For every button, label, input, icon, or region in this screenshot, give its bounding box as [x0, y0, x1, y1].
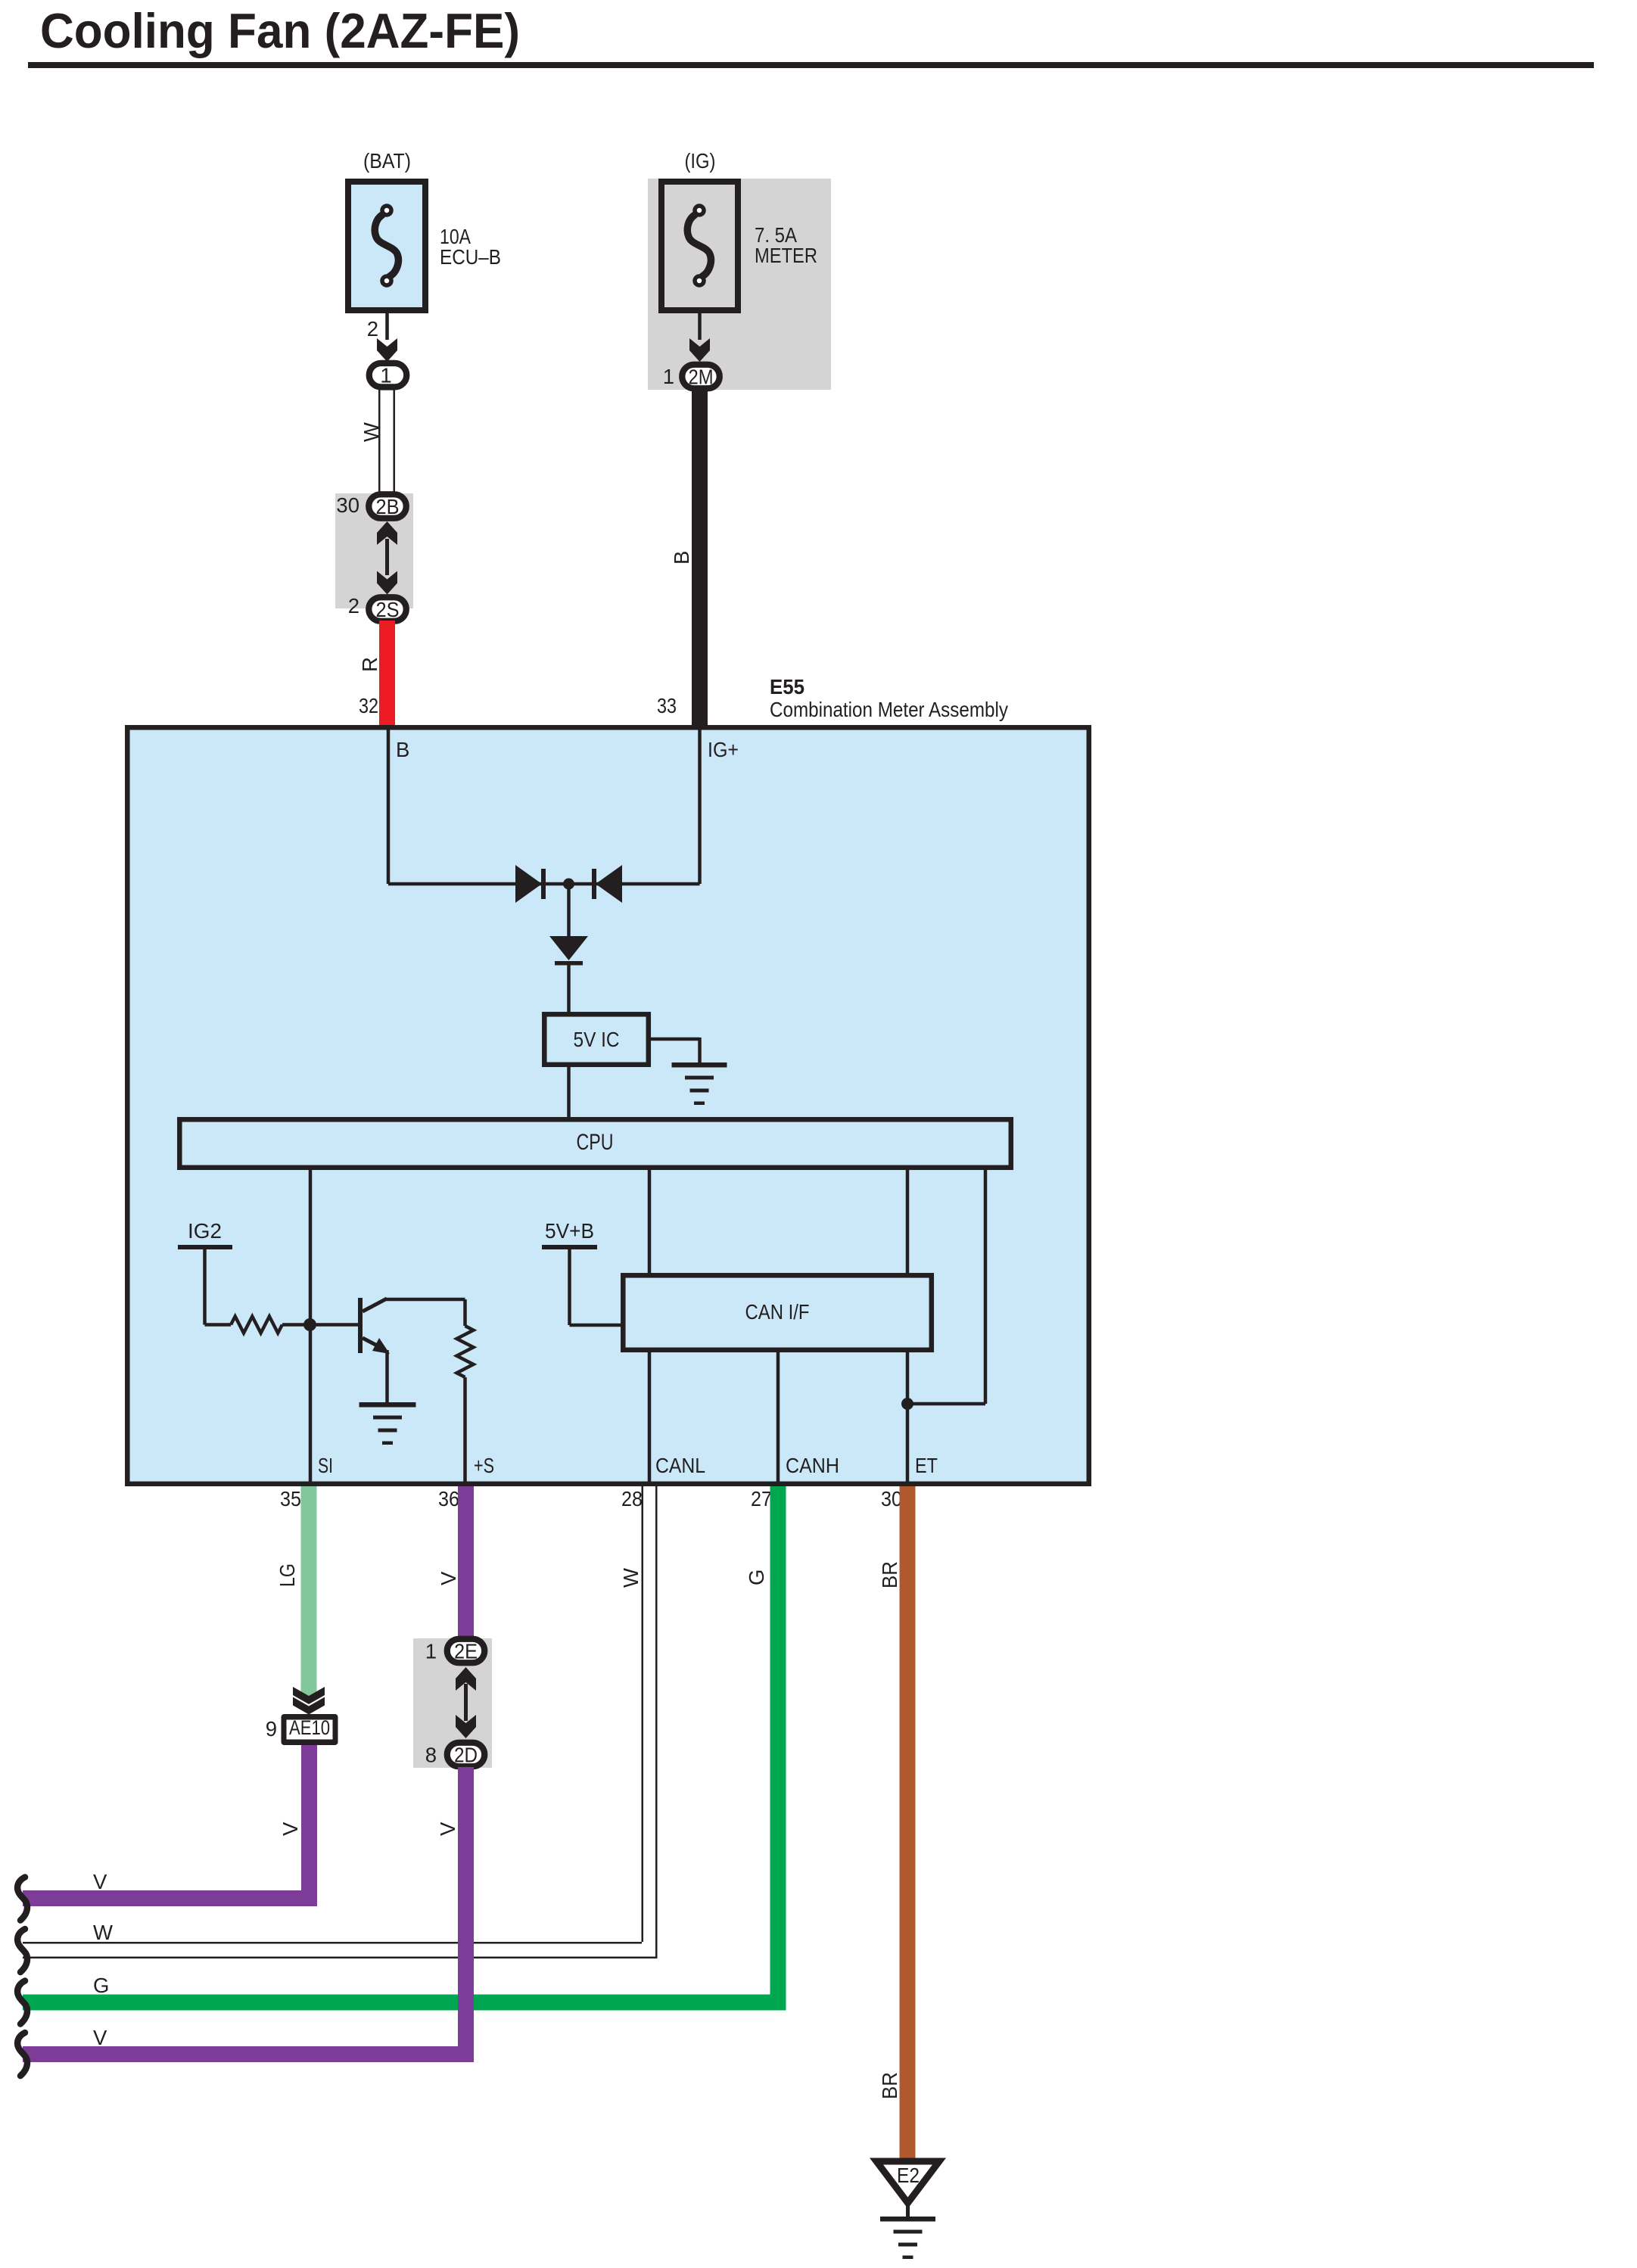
svg-text:CPU: CPU — [577, 1130, 614, 1155]
connector oval 2E — [447, 1639, 485, 1663]
inter-connector arrow down (2D) — [456, 1715, 476, 1738]
harness continuation brace 1 — [17, 1878, 27, 1921]
svg-text:1: 1 — [663, 365, 674, 388]
ground E2 stem — [906, 2203, 910, 2218]
node junction of D1/D2 — [563, 879, 574, 890]
ground G1 — [359, 1402, 416, 1408]
wire W pin 28 vertical (white wire) — [642, 1486, 644, 1942]
svg-text:+S: +S — [474, 1454, 494, 1477]
wire R2 to pin +S — [463, 1377, 467, 1485]
svg-text:CANL: CANL — [655, 1454, 705, 1477]
wire W horizontal run — [23, 1942, 642, 1944]
wire CAN I/F to pin ET — [906, 1351, 910, 1485]
inter-connector arrow up (2E) — [456, 1667, 476, 1691]
wire fuse ECU-B to connector 1 — [385, 313, 389, 340]
svg-text:V: V — [436, 1822, 459, 1836]
wire LG pin 35 (light green wire) — [301, 1486, 317, 1699]
arrow into connector 1 — [377, 338, 397, 362]
wire G horizontal run — [23, 1995, 786, 2011]
svg-text:CANH: CANH — [786, 1454, 839, 1477]
wire V 2D down (violet wire) — [458, 1767, 474, 2062]
svg-text:35: 35 — [280, 1487, 301, 1510]
wire G pin 27 vertical (green wire) — [770, 1486, 786, 2011]
junction block shade 2M — [648, 179, 831, 390]
svg-text:SI: SI — [318, 1454, 333, 1477]
wire BR pin 30 (brown wire) — [900, 1486, 916, 2159]
svg-text:36: 36 — [438, 1487, 459, 1510]
resistor R1 — [231, 1317, 282, 1333]
diode D2 — [596, 865, 622, 903]
wire pin IG+ to diode D2 — [698, 729, 702, 884]
splice arrow into AE10 — [293, 1687, 325, 1704]
svg-text:33: 33 — [657, 694, 677, 717]
wire CAN I/F to pin CANH — [776, 1351, 780, 1485]
ground G2 — [672, 1062, 727, 1068]
inter-connector link wire — [385, 539, 389, 575]
connector oval 2D — [447, 1743, 485, 1767]
wire CPU to CAN I/F (ET side) — [906, 1168, 910, 1274]
junction connector AE10 — [282, 1714, 338, 1745]
svg-text:2S: 2S — [376, 598, 400, 621]
svg-text:V: V — [93, 1870, 107, 1893]
svg-text:5V IC: 5V IC — [574, 1028, 620, 1051]
svg-text:1: 1 — [380, 364, 391, 387]
svg-text:LG: LG — [275, 1563, 299, 1587]
wire CPU to ET junction — [984, 1168, 988, 1404]
wire R1 to node SI — [282, 1323, 310, 1327]
svg-text:V: V — [437, 1571, 460, 1585]
svg-text:B: B — [670, 551, 693, 565]
wire V horizontal run 2 — [23, 2046, 474, 2062]
fuse 10A ECU-B body — [348, 182, 425, 310]
wire CAN I/F to pin CANL — [648, 1351, 652, 1485]
ground E2 bars — [880, 2217, 935, 2222]
wire W connector 1 to 2B (white wire) — [378, 387, 381, 493]
wire B 2M to pin 33 (black wire) — [692, 390, 708, 726]
wire Q1 emitter to ground G1 — [385, 1350, 389, 1405]
junction block shade 2E-2D — [413, 1638, 492, 1768]
wire R 2S to pin 32 (red wire) — [379, 621, 395, 726]
wire V horizontal run 1 — [23, 1890, 317, 1906]
inter-connector link wire (2E-2D) — [464, 1684, 468, 1721]
svg-text:V: V — [279, 1822, 302, 1836]
svg-text:5V+B: 5V+B — [545, 1219, 594, 1243]
svg-text:(BAT): (BAT) — [363, 149, 411, 173]
svg-text:8: 8 — [425, 1744, 437, 1767]
svg-text:W: W — [93, 1921, 113, 1944]
svg-text:BR: BR — [878, 2072, 901, 2099]
svg-text:2E: 2E — [454, 1640, 478, 1663]
wire fuse METER to connector 2M — [698, 313, 702, 340]
fuse 10A ECU-B element symbol — [375, 215, 398, 276]
fuse 7.5A METER body — [661, 182, 738, 310]
svg-text:E55: E55 — [770, 675, 804, 698]
wire ET junction horizontal — [907, 1402, 985, 1406]
svg-text:IG2: IG2 — [188, 1219, 222, 1243]
CAN I/F box — [623, 1275, 932, 1350]
connector oval 1 — [369, 363, 407, 387]
svg-text:2D: 2D — [454, 1744, 478, 1767]
svg-text:ET: ET — [915, 1454, 938, 1477]
svg-text:V: V — [93, 2026, 107, 2049]
wire Q1 collector to resistor R2 — [385, 1298, 465, 1302]
node ET junction dot — [901, 1398, 913, 1410]
regulator 5V IC box — [544, 1014, 649, 1065]
connector oval 2B — [369, 494, 406, 518]
svg-text:2B: 2B — [376, 495, 400, 518]
wire node to transistor Q1 base — [310, 1323, 359, 1327]
resistor R2 — [457, 1326, 474, 1377]
inter-connector arrow down — [377, 571, 397, 595]
wire V pin 36 vertical (violet wire) — [458, 1486, 474, 1640]
node SI junction dot — [303, 1318, 316, 1331]
wire 5V+B to CAN I/F — [570, 1324, 624, 1327]
connector oval 2S — [369, 597, 406, 621]
svg-text:AE10: AE10 — [289, 1716, 330, 1739]
svg-text:R: R — [358, 657, 381, 672]
svg-text:METER: METER — [755, 244, 817, 267]
transistor Q1 — [358, 1298, 363, 1353]
wire 5V IC to ground G2 — [649, 1038, 700, 1041]
fuse 7.5A METER element symbol — [687, 215, 711, 276]
svg-text:BR: BR — [878, 1561, 901, 1588]
wire junction to diode D3 — [567, 884, 571, 937]
svg-text:Cooling Fan (2AZ-FE): Cooling Fan (2AZ-FE) — [40, 3, 520, 58]
wire IG2 to resistor R1 — [205, 1323, 232, 1327]
svg-text:W: W — [359, 422, 383, 442]
ECU box E55 Combination Meter Assembly — [127, 727, 1089, 1484]
diode D3 — [549, 936, 588, 960]
svg-text:2: 2 — [348, 594, 359, 618]
svg-text:ECU–B: ECU–B — [440, 245, 501, 269]
wire CPU to pin SI — [309, 1168, 313, 1485]
connector oval 2M — [682, 365, 720, 389]
inter-connector arrow up — [377, 521, 397, 545]
svg-text:2M: 2M — [689, 366, 714, 389]
svg-text:Combination Meter Assembly: Combination Meter Assembly — [770, 698, 1008, 721]
wire 5V IC to CPU — [567, 1065, 571, 1118]
title underline rule — [28, 62, 1594, 68]
svg-text:(IG): (IG) — [685, 149, 716, 173]
wire diode bus horizontal — [388, 882, 700, 886]
svg-text:1: 1 — [425, 1640, 437, 1663]
svg-text:CAN I/F: CAN I/F — [745, 1300, 810, 1324]
diode D1 — [515, 865, 542, 903]
junction block shade 2B-2S — [335, 493, 413, 608]
wire D3 to 5V IC — [567, 965, 571, 1014]
svg-text:G: G — [93, 1974, 109, 1997]
wire pin B to diode D1 — [387, 729, 391, 884]
harness continuation brace 4 — [17, 2033, 27, 2076]
svg-text:30: 30 — [881, 1487, 902, 1510]
harness continuation brace 3 — [17, 1981, 27, 2024]
svg-text:9: 9 — [266, 1717, 277, 1741]
svg-text:W: W — [619, 1568, 643, 1588]
arrow into connector 2M — [689, 338, 710, 362]
ground E2 triangle — [876, 2161, 939, 2203]
svg-text:2: 2 — [367, 317, 378, 341]
svg-text:E2: E2 — [897, 2164, 920, 2187]
svg-text:B: B — [396, 738, 409, 761]
CPU box — [179, 1119, 1011, 1168]
svg-text:28: 28 — [621, 1487, 643, 1510]
svg-text:27: 27 — [751, 1487, 772, 1510]
svg-text:IG+: IG+ — [708, 738, 739, 761]
svg-text:32: 32 — [359, 694, 378, 717]
harness continuation brace 2 — [17, 1929, 27, 1972]
wire V AE10 down (violet wire) — [301, 1745, 317, 1906]
svg-text:G: G — [745, 1570, 768, 1585]
svg-text:30: 30 — [336, 493, 359, 517]
wire CPU to CAN I/F (CANL side) — [648, 1168, 652, 1274]
